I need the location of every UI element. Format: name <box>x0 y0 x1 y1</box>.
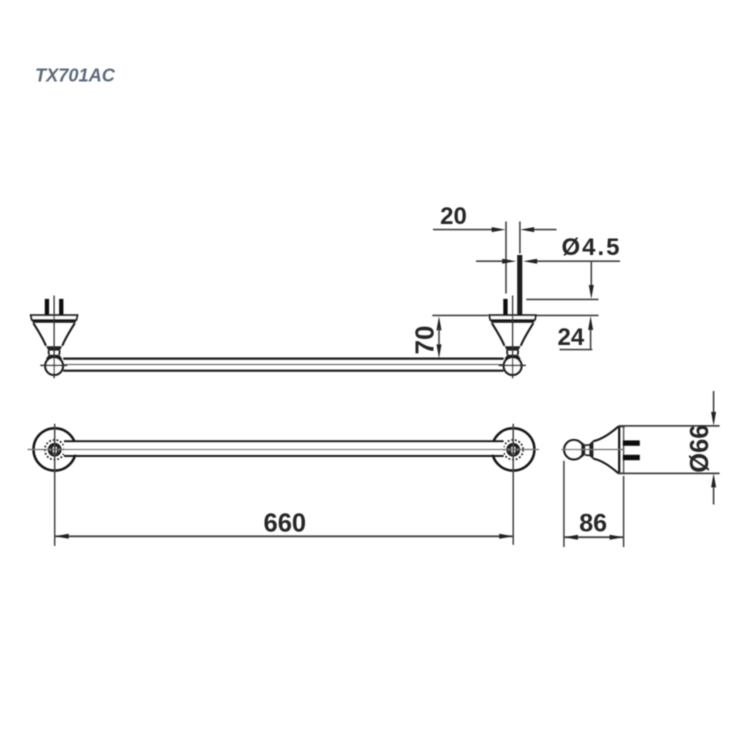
left flange screw hole <box>51 445 59 453</box>
right post cap plate <box>489 315 536 320</box>
right flange screw hole <box>509 445 517 453</box>
leader arrow to pin top level <box>590 261 592 287</box>
side view collar ring at bell <box>589 440 593 459</box>
side view plate top edge <box>618 425 625 427</box>
left post ball end <box>45 357 63 375</box>
cap top level line right <box>536 314 598 316</box>
side view flange plate front face <box>618 426 620 473</box>
right flange outer circle <box>492 428 534 470</box>
dimension dia66 bottom arrow <box>711 473 716 487</box>
right post ball end <box>504 357 522 375</box>
left post pin 2 <box>59 299 63 315</box>
svg-text:660: 660 <box>264 509 307 537</box>
side view collar neck <box>585 445 589 456</box>
towel bar (side view) bottom edge <box>63 370 503 372</box>
dimension 86 left extension <box>563 461 565 547</box>
dimension 20 line left part <box>433 229 493 231</box>
side view pin 2 <box>623 455 640 460</box>
dimension 86 line <box>564 536 624 538</box>
svg-text:Ø4.5: Ø4.5 <box>562 234 622 261</box>
svg-text:20: 20 <box>440 203 467 230</box>
left flange vertical centerline / extension <box>54 424 56 546</box>
left post collar upper ring <box>46 346 62 350</box>
towel bar (side view) top edge <box>63 358 503 360</box>
side view ball end <box>564 440 583 459</box>
front view horizontal centerline <box>28 449 540 451</box>
left post collar lower ring <box>46 355 62 359</box>
svg-text:Ø66: Ø66 <box>686 424 714 472</box>
right post mounting screw (extended) <box>517 255 522 316</box>
side view centerline (over shapes) <box>561 449 624 451</box>
right post cap underside band <box>491 320 534 323</box>
dimension 20 line right part <box>520 227 534 232</box>
dimension dia 4.5 line right part <box>523 259 537 264</box>
svg-text:24: 24 <box>558 324 585 351</box>
extension line screw centre <box>519 222 521 254</box>
towel bar (front view) bottom edge <box>64 455 504 457</box>
towel bar (side view) middle line <box>64 364 504 366</box>
left flange outer circle <box>34 428 76 470</box>
svg-text:70: 70 <box>410 326 440 355</box>
right flange bell circle (dashed) <box>503 440 523 460</box>
dimension 70 extension uses cap top line; vertical dim line <box>437 316 442 330</box>
right post collar lower ring <box>504 355 520 359</box>
pin top level line <box>526 298 598 300</box>
right post collar neck <box>507 351 518 355</box>
dimension 24 underline <box>560 349 593 351</box>
left post cap underside band <box>32 320 75 323</box>
right post bell body <box>492 323 533 346</box>
side view plate bottom edge <box>618 472 625 474</box>
extension line rear pin centre <box>505 222 507 294</box>
right post vertical centerline <box>512 296 514 379</box>
left post collar neck <box>49 351 60 355</box>
svg-text:86: 86 <box>579 510 607 538</box>
left post pin 1 <box>45 299 49 315</box>
dimension dia66 top extension <box>619 425 720 427</box>
dimension 86 right extension <box>623 476 625 547</box>
right flange vertical centerline / extension <box>512 424 514 545</box>
left post cap plate <box>31 315 78 320</box>
dimension 24 up arrow <box>588 316 593 330</box>
dimension dia66 bottom extension <box>619 472 720 474</box>
cap top level line left <box>432 314 488 316</box>
right flange ball circle <box>507 444 519 456</box>
right post horizontal centerline <box>499 364 526 366</box>
side view flange plate wall face <box>623 426 625 473</box>
right post collar upper ring <box>505 346 521 350</box>
side view bell outline <box>593 427 618 474</box>
towel bar (front view) top edge <box>64 440 504 442</box>
left post vertical centerline <box>53 296 55 379</box>
left flange bell circle (dashed) <box>45 440 65 460</box>
side view collar ring at ball <box>581 442 585 458</box>
dimension 660 line <box>55 535 514 537</box>
left flange ball circle <box>49 444 61 456</box>
left post bell body <box>33 323 74 346</box>
towel bar (front view) body <box>64 443 504 455</box>
right post pin (rear, short) <box>503 299 507 315</box>
side view pin 1 <box>623 440 640 445</box>
dimension dia66 top arrow <box>713 391 715 413</box>
dimension dia 4.5 line left part <box>476 260 503 262</box>
left post horizontal centerline <box>40 364 67 366</box>
svg-text:TX701AC: TX701AC <box>35 65 116 85</box>
